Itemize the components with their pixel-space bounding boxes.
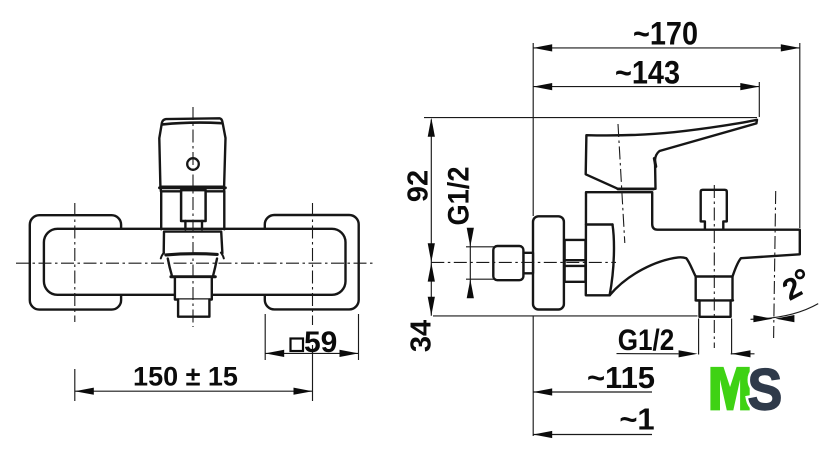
side: ~170 right extension [799, 43, 801, 228]
G1/2 wall nut [493, 246, 523, 280]
handle lower band [161, 188, 225, 191]
2 deg reference vertical [774, 191, 776, 338]
~1 arrow [533, 431, 552, 438]
left plate centerline [74, 203, 76, 322]
left wall plate [30, 215, 121, 309]
escutcheon rim hooks [161, 253, 224, 259]
right plate centerline [312, 203, 314, 325]
mixer body bar [44, 229, 346, 295]
side: G1/2 nut extension lines [466, 247, 494, 279]
front horizontal axis centerline [16, 262, 374, 264]
svg-text:~1: ~1 [619, 402, 654, 437]
spout cone bottom flange [171, 275, 215, 278]
front: sq59 dimension line [265, 352, 358, 354]
handle cap seam [163, 123, 222, 125]
diverter knob [701, 190, 727, 230]
right wall plate [265, 215, 359, 309]
outlet G1/2 arrows (outside, pointing in) [679, 350, 698, 357]
logo letter M [710, 367, 749, 411]
svg-text:~143: ~143 [615, 55, 680, 91]
side tube axis [713, 185, 715, 348]
side: ~143 right extension [758, 82, 760, 117]
front: 150 extension lines [75, 345, 313, 401]
spout tube (front) [175, 278, 212, 299]
svg-text:59: 59 [304, 326, 337, 359]
side supply axis [431, 261, 616, 263]
body shoulder line [586, 223, 613, 225]
front: 150 dimension line [75, 390, 313, 392]
svg-text:~115: ~115 [587, 360, 655, 395]
handle cap (front) [159, 118, 225, 186]
side: 2 deg arc [751, 304, 819, 320]
svg-text:92: 92 [402, 170, 434, 202]
handle bottom edge [160, 186, 226, 189]
side: ~115 dimension line [533, 391, 652, 393]
connector neck [523, 253, 533, 273]
side: ~170 dimension line [533, 47, 800, 49]
150 arrows [75, 388, 94, 395]
svg-text:G1/2: G1/2 [618, 324, 675, 357]
side: G1/2 outlet underline + leader [617, 353, 755, 355]
side: G1/2 nut dimension line [469, 228, 471, 297]
collar stack [565, 240, 586, 282]
svg-text:S: S [748, 357, 783, 422]
svg-text:~170: ~170 [633, 16, 698, 52]
svg-text:34: 34 [405, 320, 437, 352]
cartridge block sides [161, 191, 224, 229]
body + deck + spout silhouette [586, 192, 800, 317]
side: wall plane extension line [532, 43, 534, 436]
side: outlet extension lines [699, 319, 732, 355]
bell bottom joint [696, 275, 733, 277]
92 arrows [428, 118, 435, 137]
aerator (front) [178, 300, 209, 317]
side: ~1 dimension line [533, 434, 652, 436]
dim text sq59 square [291, 339, 304, 352]
front handle centerline [192, 107, 194, 327]
~143 arrows [533, 83, 552, 90]
side: ~143 dimension line [533, 86, 759, 88]
handle screw hole [187, 158, 199, 170]
handle seam notch [654, 159, 656, 167]
collar lines [565, 260, 586, 266]
cartridge inner rect A [181, 190, 206, 221]
handle bottom thick line [618, 188, 654, 191]
cartridge inner rect B [185, 221, 202, 229]
front: sq59 extension lines [265, 314, 358, 360]
wall flange [533, 216, 564, 309]
side handle axis (tilted) [618, 124, 625, 243]
side: bottom outlet extension line [433, 315, 698, 317]
~170 arrows [533, 44, 552, 51]
escutcheon rim arc [166, 254, 217, 255]
svg-text:150 ± 15: 150 ± 15 [133, 362, 238, 392]
spout escutcheon (front) [164, 232, 223, 254]
2 deg arrows (converging) [753, 315, 772, 322]
handle lever (side) [586, 120, 757, 189]
svg-text:G1/2: G1/2 [442, 167, 475, 226]
body front face [610, 225, 614, 296]
tube / nozzle step line [696, 299, 733, 301]
spout cone (front) [168, 259, 217, 276]
side: top extension line over handle [424, 117, 757, 119]
sq59 arrows [265, 350, 284, 357]
G1/2 nut arrows (outside, pointing in) [467, 228, 474, 247]
34 arrows [428, 263, 435, 282]
~115 arrow [533, 388, 552, 395]
side: 92/34 dimension line [430, 120, 432, 316]
